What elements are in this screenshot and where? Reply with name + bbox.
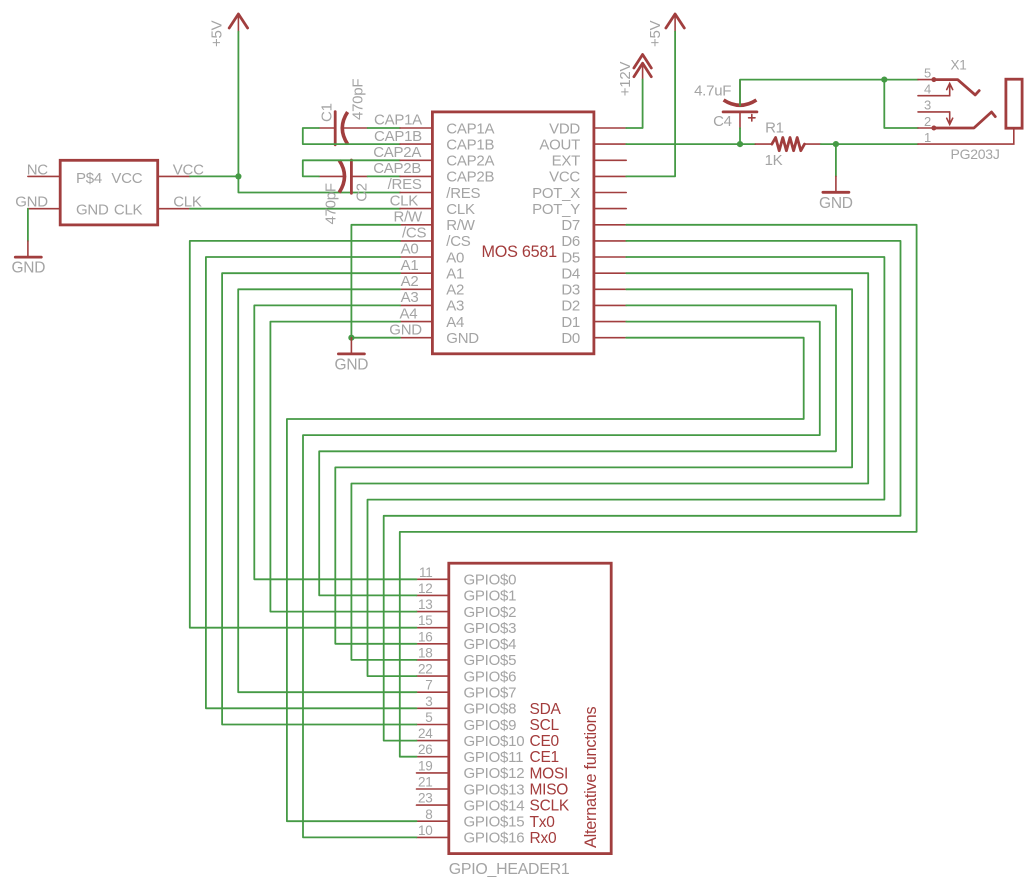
GPIO header pin 26 stub [417,756,449,758]
wire /CS to GPIO pin 15 [190,241,417,628]
wire R1 to jack pin 1 [821,143,918,145]
svg-text:GND: GND [819,195,853,212]
svg-text:CE1: CE1 [530,749,559,766]
svg-text:X1: X1 [951,58,967,73]
svg-text:D6: D6 [561,233,580,250]
svg-text:CAP2A: CAP2A [446,153,494,170]
svg-text:10: 10 [418,823,433,838]
ground chip [338,352,364,355]
GPIO header pin 8 stub [417,820,449,822]
svg-text:CLK: CLK [390,192,419,209]
svg-text:22: 22 [418,662,433,677]
GPIO header pin 3 stub [417,707,449,709]
wire D1 to GPIO pin 10 [303,322,820,838]
svg-text:470pF: 470pF [350,79,367,120]
wire junction to ground (right) [835,144,837,176]
svg-text:CAP1B: CAP1B [374,128,422,145]
svg-text:D7: D7 [561,217,580,234]
power +5V symbol (left) [229,14,247,32]
svg-text:R/W: R/W [446,217,476,234]
svg-text:A0: A0 [446,249,464,266]
svg-text:D1: D1 [561,314,580,331]
wire C4 top to jack pin 5 [740,80,918,106]
chip pin D3 (right) [594,288,626,290]
wire CAP2B net [368,175,401,177]
svg-text:CAP2B: CAP2B [446,169,494,186]
power +5V symbol (right) [666,14,684,32]
ground pin lead (left) [27,241,29,257]
svg-text:A2: A2 [446,282,464,299]
svg-text:1K: 1K [765,152,783,169]
svg-text:POT_X: POT_X [532,185,580,202]
chip pin /RES (left) [400,192,432,194]
svg-text:GPIO_HEADER1: GPIO_HEADER1 [449,861,570,877]
GPIO header pin 21 stub [417,788,449,790]
chip pin CLK (left) [400,208,432,210]
svg-text:GND: GND [15,194,48,211]
GPIO header pin 24 stub [417,740,449,742]
svg-text:5: 5 [425,710,432,725]
junction jack pin5/pin2 [881,77,887,83]
jack pin 3 (switch sense, down arrow) [918,112,953,125]
svg-text:GPIO$12: GPIO$12 [464,765,525,782]
svg-text:R1: R1 [765,120,784,137]
svg-text:4.7uF: 4.7uF [694,83,731,100]
svg-text:NC: NC [27,161,49,178]
svg-text:D5: D5 [561,249,580,266]
svg-text:P$4: P$4 [76,170,102,187]
svg-text:MOS 6581: MOS 6581 [482,243,558,261]
svg-text:GND: GND [335,356,369,373]
svg-text:PG203J: PG203J [951,146,1000,162]
junction R1/GND [833,141,839,147]
svg-text:MOSI: MOSI [530,765,569,782]
svg-text:A4: A4 [400,305,418,322]
svg-text:GPIO$2: GPIO$2 [464,604,517,621]
svg-text:A4: A4 [446,314,464,331]
svg-text:D3: D3 [561,282,580,299]
svg-text:4: 4 [924,82,931,97]
svg-text:C4: C4 [713,113,732,130]
wire VDD to +12V [626,79,642,128]
svg-text:GND: GND [11,260,45,277]
svg-text:CAP1B: CAP1B [446,136,494,153]
svg-text:A0: A0 [401,241,419,258]
GPIO header pin 10 stub [417,836,449,838]
wire CAP1A net [368,127,401,129]
GPIO header pin 11 stub [417,578,449,580]
svg-text:MISO: MISO [530,782,569,799]
chip pin POT_Y (right) [594,208,626,210]
svg-text:A2: A2 [401,273,419,290]
wire A2 to GPIO pin 7 [238,289,416,692]
GPIO header pin 23 stub [417,804,449,806]
svg-text:24: 24 [418,726,433,741]
wire A4 to GPIO pin 13 [270,322,416,612]
svg-text:GPIO$1: GPIO$1 [464,588,517,605]
svg-text:15: 15 [418,613,433,628]
svg-text:GPIO$16: GPIO$16 [464,830,525,847]
junction GND (chip) [348,335,354,341]
wire D5 to GPIO pin 22 [368,257,885,676]
jack pin 2 contact [918,112,995,131]
svg-text:GPIO$0: GPIO$0 [464,572,517,589]
wire D2 to GPIO pin 12 [319,305,836,595]
chip pin GND (left) [400,337,432,339]
wire A1 to GPIO pin 5 [222,273,416,724]
chip pin D1 (right) [594,321,626,323]
chip pin D5 (right) [594,256,626,258]
svg-text:2: 2 [924,114,931,129]
wire CAP2A net [303,160,400,176]
chip pin D0 (right) [594,337,626,339]
chip pin A0 (left) [400,256,432,258]
GPIO header pin 15 stub [417,627,449,629]
svg-text:CAP2A: CAP2A [373,144,421,161]
svg-text:A3: A3 [446,298,464,315]
svg-text:EXT: EXT [552,153,581,170]
svg-text:A3: A3 [401,289,419,306]
chip pin AOUT (right) [594,143,626,145]
svg-text:GPIO$10: GPIO$10 [464,733,525,750]
svg-text:GPIO$5: GPIO$5 [464,652,517,669]
chip pin A4 (left) [400,321,432,323]
IC MOS 6581 body [432,112,594,354]
oscillator QG1 body (P$4) [60,160,158,225]
svg-text:SDA: SDA [530,701,562,718]
svg-text:CLK: CLK [114,201,143,218]
svg-text:/CS: /CS [402,225,427,242]
GPIO header pin 13 stub [417,611,449,613]
svg-text:POT_Y: POT_Y [532,201,580,218]
GPIO header pin 12 stub [417,594,449,596]
svg-text:GND: GND [76,201,109,218]
connector X1 jack body [1006,79,1022,128]
svg-text:GPIO$8: GPIO$8 [464,701,517,718]
svg-text:GPIO$4: GPIO$4 [464,636,517,653]
svg-text:3: 3 [425,694,432,709]
svg-text:+12V: +12V [617,62,634,97]
svg-text:+5V: +5V [647,20,664,47]
wire junction to jack pin 2 [884,80,918,128]
svg-text:CAP1A: CAP1A [446,120,494,137]
chip pin A3 (left) [400,304,432,306]
svg-text:C1: C1 [318,103,335,122]
chip pin D4 (right) [594,272,626,274]
svg-text:470pF: 470pF [323,183,340,224]
wire D4 to GPIO pin 18 [351,273,868,660]
svg-text:13: 13 [418,597,433,612]
wire D6 to GPIO pin 24 [384,241,901,741]
junction AOUT/C4 [737,141,743,147]
power +12V symbol [634,55,651,80]
svg-text:D2: D2 [561,298,580,315]
svg-text:D4: D4 [561,266,580,283]
svg-text:Rx0: Rx0 [530,830,557,847]
svg-text:21: 21 [418,775,433,790]
GPIO header pin 5 stub [417,724,449,726]
wire R/W to ground [351,225,400,338]
svg-text:7: 7 [425,678,432,693]
chip pin R/W (left) [400,224,432,226]
capacitor C1 [319,112,368,145]
chip pin CAP1A (left) [400,127,432,129]
chip pin EXT (right) [594,159,626,161]
svg-text:C2: C2 [354,183,371,202]
GPIO header pin 7 stub [417,691,449,693]
svg-text:CAP2B: CAP2B [373,160,421,177]
jack pin 4 (switch sense, up arrow) [918,83,953,95]
svg-text:11: 11 [419,565,433,580]
svg-text:19: 19 [418,758,433,773]
svg-text:GPIO$14: GPIO$14 [464,797,525,814]
oscillator pin CLK [158,208,190,210]
chip pin VDD (right) [594,127,626,129]
svg-text:CAP1A: CAP1A [374,112,422,129]
svg-text:GPIO$13: GPIO$13 [464,781,525,798]
ground right [823,191,849,194]
svg-text:A1: A1 [446,266,464,283]
svg-text:/RES: /RES [446,185,480,202]
resistor R1 [755,138,821,151]
svg-text:Alternative functions: Alternative functions [582,707,600,848]
svg-text:AOUT: AOUT [539,136,580,153]
wire A3 to GPIO pin 11 [254,305,416,579]
ground pin lead (right) [835,176,837,192]
svg-text:CLK: CLK [446,201,475,218]
chip pin CAP1B (left) [400,143,432,145]
svg-text:26: 26 [418,742,433,757]
chip pin A2 (left) [400,288,432,290]
svg-text:GPIO$9: GPIO$9 [464,717,517,734]
svg-text:GPIO$6: GPIO$6 [464,668,517,685]
chip pin POT_X (right) [594,192,626,194]
chip pin D6 (right) [594,240,626,242]
wire A0 to GPIO pin 3 [206,257,417,708]
svg-text:8: 8 [425,807,432,822]
GPIO header pin 19 stub [417,772,449,774]
svg-text:+5V: +5V [209,20,226,47]
capacitor C4 (polarized) [723,80,757,128]
svg-text:SCL: SCL [530,717,560,734]
oscillator pin VCC [158,175,190,177]
GPIO header pin 18 stub [417,659,449,661]
wire C4 bottom to AOUT [739,128,741,144]
chip pin CAP2B (left) [400,175,432,177]
svg-text:VDD: VDD [549,120,580,137]
oscillator pin NC [28,175,60,177]
svg-text:SCLK: SCLK [530,798,570,815]
jack pin 1 (sleeve) [918,128,1014,144]
svg-text:23: 23 [418,791,433,806]
oscillator pin GND [28,208,60,210]
svg-text:GPIO$7: GPIO$7 [464,685,517,702]
svg-text:12: 12 [418,581,433,596]
svg-text:18: 18 [418,645,433,660]
chip pin /CS (left) [400,240,432,242]
chip pin VCC (right) [594,175,626,177]
svg-text:GPIO$15: GPIO$15 [464,814,525,831]
GPIO header pin 16 stub [417,643,449,645]
wire +5V junction to /RES [238,176,400,192]
wire +5V riser to junction [237,32,239,177]
svg-text:GND: GND [389,321,422,338]
svg-text:3: 3 [924,98,931,113]
svg-text:/CS: /CS [446,233,471,250]
plus sign (C4 polarity) [749,115,755,121]
junction +5V/VCC [235,173,241,179]
wire chip GND pin [351,337,400,339]
chip pin D7 (right) [594,224,626,226]
wire AOUT to R1 [626,143,755,145]
wire CAP1B net [303,128,400,144]
svg-text:GPIO$3: GPIO$3 [464,620,517,637]
GPIO header pin 22 stub [417,675,449,677]
wire D0 to GPIO pin 8 [287,338,804,822]
chip pin D2 (right) [594,304,626,306]
capacitor C2 [319,160,368,193]
svg-text:/RES: /RES [388,176,422,193]
svg-text:16: 16 [418,629,433,644]
svg-text:GND: GND [446,330,479,347]
svg-text:Tx0: Tx0 [530,814,556,831]
chip pin CAP2A (left) [400,159,432,161]
svg-text:VCC: VCC [111,170,142,187]
chip pin A1 (left) [400,272,432,274]
wire D3 to GPIO pin 16 [335,289,852,644]
ground pin lead (chip) [350,338,352,354]
svg-text:A1: A1 [401,257,419,274]
connector GPIO_HEADER1 body [449,563,611,853]
jack pin 5 contact [918,77,979,95]
svg-text:GPIO$11: GPIO$11 [464,749,524,766]
wire VCC oscillator to +5V junction [190,175,238,177]
wire CLK oscillator to chip [190,208,400,210]
svg-text:R/W: R/W [394,209,424,226]
wire VCC to +5V [626,32,675,177]
svg-text:1: 1 [924,130,931,145]
wire D7 to GPIO pin 26 [400,225,917,757]
svg-text:5: 5 [924,65,931,80]
ground left [15,256,41,259]
svg-text:D0: D0 [561,330,580,347]
svg-text:CE0: CE0 [530,733,560,750]
wire oscillator GND to ground [27,209,29,241]
svg-text:VCC: VCC [549,169,580,186]
